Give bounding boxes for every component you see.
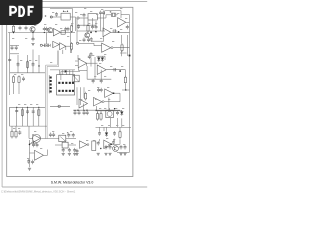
wire [9, 107, 11, 126]
wire [9, 107, 11, 126]
wire [108, 98, 110, 111]
op-amp U3 [103, 28, 111, 37]
capacitor C51 [124, 145, 127, 150]
capacitor C25 [100, 88, 103, 93]
wire [50, 16, 61, 18]
capacitor C6 [55, 12, 58, 17]
wire [8, 32, 75, 34]
capacitor C32 [52, 133, 55, 138]
capacitor C54 [27, 159, 30, 164]
capacitor C15 [126, 25, 129, 30]
op-amp U11 [79, 99, 88, 108]
box X3 [59, 135, 66, 141]
wire [96, 110, 123, 112]
wire [122, 84, 130, 90]
wire bus right [129, 15, 131, 151]
wire [66, 45, 72, 47]
wire [97, 55, 106, 57]
op-amp U13 [60, 43, 66, 50]
wire [126, 35, 128, 56]
node N [125, 55, 130, 91]
resistor R3 [70, 24, 72, 33]
resistor R7 [18, 75, 20, 94]
wire [78, 55, 105, 60]
capacitor C45 [73, 148, 76, 153]
capacitor C26 [97, 88, 100, 93]
terminal J4 [58, 105, 60, 107]
wire [66, 137, 76, 139]
page outer border left [1, 2, 3, 188]
wire [120, 35, 122, 56]
capacitor C2 [25, 26, 28, 31]
crystal Y1 [106, 11, 118, 17]
capacitor C43 [62, 148, 65, 153]
wire [79, 63, 92, 70]
wire supply rail [10, 106, 70, 107]
wire [100, 139, 115, 142]
wire [77, 30, 105, 32]
capacitor C37 [83, 111, 86, 116]
capacitor C31 [49, 133, 52, 138]
ground [62, 154, 65, 156]
op-amp U10 [80, 141, 89, 149]
resistor R17 [92, 141, 96, 151]
capacitor C19 [32, 62, 35, 67]
transistor Q6 [85, 33, 90, 38]
wire [96, 126, 132, 128]
capacitor C62 [67, 27, 70, 32]
wire [117, 150, 130, 152]
capacitor C52 [32, 143, 35, 148]
wire [10, 46, 19, 54]
capacitor C4 [11, 46, 14, 51]
transistor Q3 [113, 146, 119, 152]
wire [70, 33, 72, 54]
diode D4 [101, 56, 104, 62]
node B [63, 11, 68, 12]
capacitor C35 [74, 111, 77, 116]
op-amp U7 [94, 97, 105, 106]
resistor R4 [87, 24, 89, 33]
resistor R9 [85, 92, 87, 101]
capacitor C21 [90, 52, 93, 57]
box X4 [62, 142, 68, 148]
wire [84, 18, 96, 27]
op-amp U6 [97, 65, 106, 75]
wire [18, 50, 39, 73]
wire [87, 20, 89, 26]
wire [55, 144, 76, 146]
diode D6 [105, 127, 108, 136]
ground [73, 154, 76, 156]
wire feedback U3 [91, 37, 104, 41]
ground [97, 153, 100, 155]
resistor R14 [96, 112, 98, 121]
wire [98, 108, 110, 112]
ground [123, 153, 126, 155]
svg-text:S.M.W. Metal detector V3.0: S.M.W. Metal detector V3.0 [51, 180, 94, 184]
wire [97, 15, 106, 18]
connector P2 [57, 75, 75, 95]
node K [113, 93, 115, 95]
wire [17, 107, 39, 126]
ground [119, 153, 122, 155]
terminal J3 [76, 42, 78, 44]
capacitor C33 polarized [67, 132, 70, 137]
node A [13, 32, 45, 33]
node D [95, 31, 119, 33]
node G [119, 70, 121, 72]
node C [90, 32, 92, 33]
resistor R16 [119, 130, 121, 139]
wire [76, 18, 78, 43]
capacitor C3 [31, 37, 34, 46]
diode D3 [97, 56, 100, 62]
wire [121, 15, 129, 23]
node J [100, 144, 112, 150]
wire [94, 43, 102, 45]
capacitor C22 [112, 68, 117, 71]
capacitor C8 [99, 11, 102, 16]
capacitor C59 [43, 27, 46, 32]
capacitor C42 [112, 140, 115, 145]
ground [75, 154, 78, 156]
wire [84, 104, 97, 111]
transistor Q1 [30, 27, 35, 33]
capacitor C41 [113, 131, 116, 136]
capacitor C18 [17, 62, 20, 67]
title text [51, 180, 94, 184]
node L [77, 108, 115, 111]
capacitor C20 [22, 77, 25, 82]
wire [104, 118, 120, 132]
capacitor C17 [87, 38, 90, 43]
capacitor C56 [43, 44, 48, 47]
wire [101, 15, 104, 31]
resistor R11 [38, 108, 40, 117]
resistor R13 [15, 126, 17, 138]
speaker LS1 [106, 110, 114, 117]
capacitor C34 polarized [72, 133, 75, 138]
op-amp U4 [102, 43, 113, 52]
capacitor C60 [45, 27, 48, 32]
wire [41, 137, 59, 139]
diode D5 [120, 110, 123, 116]
wire [113, 47, 129, 49]
wire [101, 111, 118, 114]
footer separator [2, 186, 147, 188]
wire [120, 52, 127, 54]
wire [73, 109, 120, 111]
wire [112, 143, 120, 145]
node I [74, 110, 84, 111]
component value labels [12, 8, 127, 159]
capacitor C27 [15, 109, 18, 114]
op-amp U12 [53, 41, 59, 47]
connector P2 pins row2 [58, 90, 74, 92]
resistor R15 [100, 112, 102, 121]
wire [61, 71, 80, 80]
schematic frame [7, 7, 133, 176]
terminal J2 [77, 17, 79, 19]
capacitor C5 [15, 46, 18, 51]
resistor R2 [61, 31, 65, 34]
capacitor C63 [8, 58, 11, 63]
capacitor C44 [68, 148, 71, 153]
wire [104, 93, 120, 102]
node F [65, 70, 67, 72]
box X2 [73, 75, 79, 82]
capacitor C64 [90, 37, 93, 42]
capacitor C24 [100, 79, 103, 84]
op-amp Q4 [30, 150, 48, 161]
wire [45, 33, 47, 45]
capacitor C55 [31, 160, 34, 165]
node E [38, 65, 39, 66]
wire [42, 44, 45, 46]
wire [10, 72, 45, 74]
wire [79, 42, 94, 44]
svg-text:C:\Elektronika\SMW\SMW_Metal_d: C:\Elektronika\SMW\SMW_Metal_detector_V3… [1, 189, 76, 193]
resistor R1 [12, 25, 14, 34]
wire [79, 17, 88, 19]
capacitor C49 [109, 145, 112, 150]
capacitor C58 [88, 55, 91, 60]
capacitor C7 [83, 13, 86, 18]
capacitor C36 [78, 111, 81, 116]
connector P1 pins [49, 75, 52, 94]
resistor R5 [26, 60, 28, 69]
wire [9, 33, 11, 96]
capacitor C16 [83, 38, 86, 43]
wire [32, 33, 34, 39]
terminal J5 [40, 44, 42, 46]
op-amp U2 [118, 18, 126, 27]
capacitor C53 [36, 143, 39, 148]
capacitor C29 [32, 109, 35, 114]
op-amp U8 [105, 89, 114, 98]
wire feedback [105, 11, 121, 18]
box X1 [88, 14, 97, 20]
wire [87, 58, 98, 64]
ground [68, 154, 71, 156]
wire [119, 139, 121, 144]
resistor R20 [121, 43, 123, 52]
relay K1 [61, 13, 76, 20]
wire pins up [59, 70, 73, 75]
wire [63, 46, 66, 54]
capacitor C47 [97, 141, 100, 146]
wire [10, 125, 47, 127]
capacitor C40 [98, 127, 101, 135]
wire [30, 142, 38, 144]
wire [29, 140, 31, 167]
diode D7 [50, 44, 53, 47]
ground [104, 153, 107, 155]
capacitor C61 [64, 27, 67, 32]
capacitor C28 [26, 109, 29, 114]
wire [124, 70, 126, 77]
ground [108, 153, 111, 155]
resistor R6 [12, 75, 14, 94]
capacitor C39 [116, 111, 119, 116]
resistor R8 [124, 76, 126, 85]
wire [94, 57, 96, 63]
capacitor C1 [19, 26, 22, 31]
capacitor C12 [91, 25, 94, 30]
capacitor C14 [112, 29, 117, 32]
wire [111, 31, 130, 33]
wire [100, 70, 102, 80]
wire [77, 87, 84, 105]
wire [77, 24, 96, 26]
capacitor C23 [92, 79, 95, 84]
resistor R12 [11, 126, 13, 138]
wire [118, 118, 122, 127]
node H [16, 107, 40, 108]
page outer border top [0, 1, 147, 3]
transistor Q5 [48, 28, 53, 33]
wire [75, 17, 77, 31]
node M [29, 142, 34, 146]
wire [50, 69, 75, 71]
capacitor C30 [18, 130, 21, 135]
wire [50, 9, 73, 28]
ground [28, 168, 31, 170]
capacitor C57 [45, 44, 50, 47]
wire [87, 63, 95, 79]
connector P2 pins row1 [58, 82, 74, 84]
terminal J1 [50, 16, 52, 18]
capacitor C13 [95, 25, 98, 30]
wire shielded bus [46, 51, 59, 139]
PDF badge [0, 0, 43, 25]
capacitor C38 [86, 111, 89, 116]
op-amp U1 [53, 29, 60, 36]
resistor R19 [71, 42, 73, 53]
op-amp U5 [75, 59, 87, 68]
capacitor C50 [120, 145, 123, 150]
wire [106, 69, 125, 71]
wire [87, 78, 111, 80]
capacitor C48 [105, 145, 108, 150]
footer text [1, 189, 76, 193]
op-amp U9 [104, 140, 112, 148]
capacitor C46 [76, 149, 79, 154]
capacitor C11 [77, 24, 80, 29]
polarity mark [45, 15, 47, 17]
transistor Q2 [29, 126, 41, 142]
capacitor C9 [102, 11, 105, 16]
resistor R10 [21, 108, 23, 117]
